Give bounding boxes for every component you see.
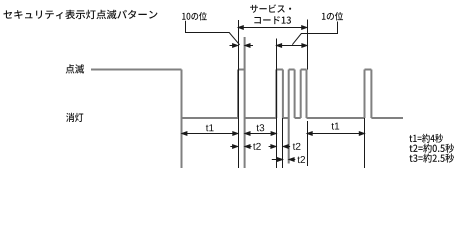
legend — [409, 134, 443, 143]
dimension t1 (left) — [182, 132, 238, 136]
title: security indicator blink pattern — [3, 10, 157, 19]
wire: waveform — [91, 37, 403, 168]
label: ones digit — [322, 12, 343, 21]
label: blinking level — [66, 64, 84, 73]
extension lines — [239, 20, 365, 169]
label: tens digit — [182, 12, 207, 21]
dimension t2: tens pulse width — [230, 145, 251, 149]
dimension t3 — [245, 132, 276, 136]
dimension t1 (right) — [307, 132, 364, 136]
label: off level — [66, 113, 83, 122]
dimension t2: ones gap width — [272, 158, 296, 162]
dimension: service code 13 span — [238, 26, 306, 30]
t labels — [206, 124, 214, 131]
dimension t2: ones pulse width — [269, 145, 291, 149]
